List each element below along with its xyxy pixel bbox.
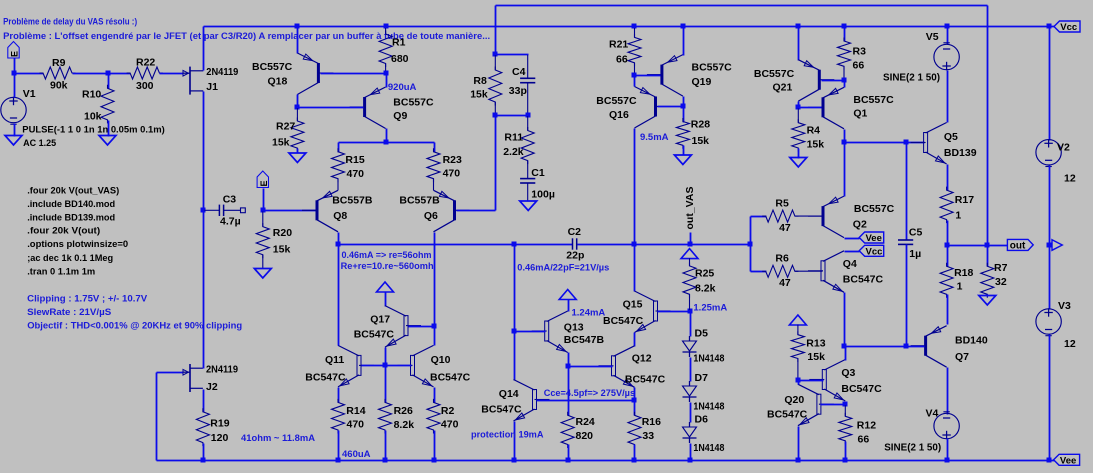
label J2 2N4119 [206,364,238,376]
wire flag to Q13 collector [568,300,570,312]
svg-text:D5: D5 [695,328,709,340]
annotation Re+re [341,261,434,272]
resistor R21 [628,34,641,66]
ground under R10 [99,136,116,146]
port flag unnamed [1052,240,1062,251]
net flag above R25 [681,249,698,259]
wire J1 source down [203,92,205,211]
svg-text:8.2k: 8.2k [695,283,716,295]
transistor Q8 BC557B [302,190,338,232]
transistor Q9 BC557C [350,87,386,129]
node Q1 base junction [796,105,801,110]
svg-text:R23: R23 [443,154,462,166]
svg-text:R26: R26 [394,405,413,417]
value R2 470 [441,419,459,431]
label Q13 BC547B [564,334,605,346]
wire Q17 emitter down [385,348,387,366]
label R22 [136,57,155,69]
lead R23 to Q6 emitter [433,179,435,191]
value R23 470 [443,168,461,180]
svg-text:41ohm ~ 11.8mA: 41ohm ~ 11.8mA [241,433,315,444]
value C3 4.7u [220,216,241,228]
value C4 33p [509,85,527,97]
label Q13 [564,322,584,334]
wire Q18 collector down [297,95,299,108]
bottom rail junction R12 [843,458,848,463]
svg-text:470: 470 [347,419,365,431]
label Q21 BC557C [754,68,795,80]
label V3 [1058,300,1071,312]
label Q9 BC557C [393,97,434,109]
label R11 [504,132,523,144]
value R6 47 [779,277,791,289]
wire Q12 emitter to R16 [634,388,636,416]
ground under R7 [979,296,996,306]
label Q17 [370,314,390,326]
wire C5 top lead [906,143,908,241]
wire Q8 collector down [338,233,340,245]
svg-text:Problème : L'offset engendré p: Problème : L'offset engendré par le JFET… [3,31,490,42]
value R11 2.2k [503,146,524,158]
node Q3 base junction [796,378,801,383]
wire Q13 base left [515,331,546,333]
wire Q10 base [386,365,412,367]
wire Q7 base line [845,346,925,348]
wire R12 to rail [845,442,847,461]
svg-text:300: 300 [136,80,154,92]
svg-text:470: 470 [441,419,459,431]
transistor Q20 BC547C [798,384,834,426]
svg-text:Objectif : THD<0.001% @ 20KHz: Objectif : THD<0.001% @ 20KHz et 90% cli… [27,321,242,332]
wire C5 bottom lead [906,245,908,347]
wire R2 to rail [434,431,436,461]
label Q7 [955,351,969,363]
annotation Objectif [27,321,242,332]
svg-text:0.46mA => re=56ohm: 0.46mA => re=56ohm [342,250,432,261]
label Q6 [424,210,438,222]
svg-text:33: 33 [642,430,654,442]
label Q2 [853,219,867,231]
svg-text:Q1: Q1 [853,108,867,120]
svg-text:Vee: Vee [1060,455,1076,466]
directive .options [27,239,128,250]
label Q14 BC547C [481,404,522,416]
wire Q11 collector up [338,245,340,346]
svg-text:BC547B: BC547B [564,334,605,346]
svg-text:Q11: Q11 [325,354,344,366]
label R7 [994,262,1008,274]
label Q15 BC547C [603,315,644,327]
wire Q18 base to mirror node [321,73,387,75]
wire J2 gate to rail [157,373,184,461]
wire flag to Q17 collector [385,293,387,307]
svg-text:R11: R11 [504,132,523,144]
ground under V1 [5,136,22,146]
svg-text:Q10: Q10 [431,354,451,366]
wire Q15 base right [658,311,691,313]
svg-text:Q14: Q14 [499,388,519,400]
svg-text:BC547C: BC547C [430,372,471,384]
resistor R14 [332,399,345,434]
svg-text:R19: R19 [210,418,229,430]
svg-text:Q21: Q21 [773,82,793,94]
svg-text:Q8: Q8 [333,210,347,222]
wire Q9 base left [298,107,364,109]
label R4 [807,125,821,137]
lead R20 to ground [262,255,264,269]
svg-text:PULSE(-1 1 0 1n 1n 0.05m 0.1m): PULSE(-1 1 0 1n 1n 0.05m 0.1m) [22,125,165,135]
wire Q20 collector up [798,381,800,385]
wire Q20 emitter to rail [798,427,800,461]
lead C4 top [527,55,529,78]
value R27 15k [272,137,290,149]
svg-text:15k: 15k [272,137,290,149]
label R15 [345,154,364,166]
svg-text:R5: R5 [775,198,789,210]
wire Q9 emitter up [386,74,388,88]
value V2 12 [1064,173,1076,185]
comment line 1 [3,17,137,28]
svg-text:R10: R10 [82,89,101,101]
wire degeneration rail [339,142,435,144]
wire rail to Q21 emitter [798,27,800,61]
svg-text:Problème de delay du VAS résol: Problème de delay du VAS résolu :) [3,17,137,28]
wire Q2 emitter up [844,143,846,197]
transistor Q6 BC557B [434,190,470,232]
wire Q12 base left [569,366,613,368]
svg-text:E: E [259,180,269,186]
label R13 [806,338,825,350]
svg-text:Q9: Q9 [393,110,407,122]
top rail junction R21 [632,24,637,29]
value R16 33 [642,430,654,442]
resistor R28 [676,118,689,149]
label R27 [276,121,295,133]
wire V5 to Q5 collector [947,71,949,123]
wire rail to V5 [947,27,949,45]
svg-text:R15: R15 [345,154,364,166]
label C1 [531,167,545,179]
wire R16 to rail [634,445,636,461]
svg-text:R28: R28 [691,119,710,131]
svg-text:SlewRate : 21V/µS: SlewRate : 21V/µS [27,307,111,318]
label R28 [691,119,710,131]
label J2 [206,381,218,393]
wire divider node to R10 [108,74,110,89]
svg-text:D6: D6 [695,414,709,426]
svg-text:C4: C4 [512,66,526,78]
label Q15 [623,299,643,311]
wire R27 to ground [297,149,299,154]
svg-text:Q18: Q18 [268,76,288,88]
svg-text:Q13: Q13 [564,322,584,334]
net flag E (input) [8,42,20,59]
wire E-flag to R20 node [263,189,265,211]
label Q11 BC547C [305,372,346,384]
wire to R23 [434,143,436,153]
label Q20 BC547C [767,409,808,421]
wire R18 to Q7 emitter [947,295,949,325]
svg-text:BC557B: BC557B [399,195,440,207]
svg-text:BC547C: BC547C [767,409,808,421]
svg-text:V2: V2 [1057,142,1070,154]
resistor R11 [521,127,534,164]
wire rail to R3 [844,27,846,42]
wire VAS drop to Q14 [514,245,516,381]
node Q19/Q16/R28 junction [681,104,686,109]
svg-text:C3: C3 [223,194,237,206]
svg-text:R4: R4 [807,125,821,137]
lead R13 to node [797,359,799,379]
top rail junction Q21 [796,24,801,29]
lead node to R4 [797,108,799,122]
svg-text:R8: R8 [473,75,487,87]
svg-text:1N4148: 1N4148 [693,442,724,454]
value C1 100u [531,189,555,201]
node input pair bases junction [383,363,388,368]
resistor R16 [628,412,641,448]
node Q3e/Q20b/R12 junction [843,402,848,407]
svg-text:BC547C: BC547C [843,274,884,286]
lead node to C3 [204,209,219,211]
lead E node to R20 [262,211,264,226]
directive .four out [27,226,100,237]
svg-text:820: 820 [576,430,594,442]
net flag Vee bottom right [1054,454,1080,466]
node VAS junction Q14col [512,242,517,247]
svg-text:R1: R1 [392,37,406,49]
bottom rail junction D6 [688,458,693,463]
wire Q17 base right [409,326,435,328]
transistor Q12 BC547C [599,346,635,388]
bottom rail junction R16 [632,458,637,463]
label R18 [954,267,973,279]
svg-text:C2: C2 [568,226,582,238]
label Q16 [609,109,629,121]
wire Q6 base right [457,210,496,212]
wire node to R28 [683,107,685,123]
voltage source V5 [934,43,959,70]
voltage source V1 [1,97,26,124]
svg-text:Vcc: Vcc [1060,22,1077,33]
svg-text:R9: R9 [52,57,66,69]
resistor R24 [561,412,574,448]
wire Q13 emitter down [568,353,570,367]
bottom rail junction V3 [1047,458,1052,463]
transistor Q11 BC547C [338,345,374,387]
value R19 120 [211,432,229,444]
lead R25 to out_VAS node [689,294,691,310]
annotation 1.25mA [693,303,727,314]
bottom rail junction Q14 [512,458,517,463]
label Q9 [393,110,407,122]
wire R26 to rail [385,431,387,461]
bottom rail junction Q20 [796,458,801,463]
label Q8 [333,210,347,222]
node R3/Q21/Q1 junction [842,78,847,83]
svg-text:680: 680 [391,53,409,65]
svg-text:90k: 90k [50,80,68,92]
svg-text:Q7: Q7 [955,351,969,363]
annotation 920uA [388,82,417,93]
wire rail to V2 [1049,27,1051,141]
svg-text:J2: J2 [206,381,218,393]
wire Q15 emitter to Q12 collector [634,333,636,347]
wire Q3 emitter down [845,402,847,405]
wire V3 to rail [1049,335,1051,461]
wire to R15 [338,143,340,153]
annotation 41ohm [241,433,315,444]
wire E node to Q8 base [264,210,316,212]
net flag E at R20 [257,171,269,188]
svg-text:V3: V3 [1058,300,1071,312]
label Q5 BD139 [944,147,977,159]
label Q18 [268,76,288,88]
svg-text:1N4148: 1N4148 [693,401,724,413]
resistor R6 [762,265,798,277]
wire Q3 collector up [845,347,847,361]
capacitor C1 [520,179,535,183]
value V4 SINE [884,442,941,454]
transistor Q18 BC557C [297,53,333,95]
net flag Vee at Q2 [859,232,884,244]
label Q1 BC557C [853,94,894,106]
transistor J2 2N4119 [183,364,203,392]
label Q5 [944,131,958,143]
svg-text:R16: R16 [642,416,661,428]
resistor R17 [940,187,953,224]
label R26 [394,405,413,417]
label Q18 BC557C [252,61,293,73]
wire R4 to ground [798,149,800,159]
value R17 1 [955,210,961,222]
resistor R9 [40,67,76,79]
label C3 [223,194,237,206]
value R21 66 [616,54,628,66]
label Q4 BC547C [843,274,884,286]
wire Q16 collector down [634,129,636,245]
lead flag to R13 [797,325,799,335]
node Q4 emitter junction [842,344,847,349]
value R28 15k [692,135,710,147]
wire feedback to Q6 base [495,116,497,211]
node C3 junction [201,208,206,213]
wire D7 to D6 [690,403,692,423]
wire branch vertical [750,217,752,272]
svg-text:out: out [1010,241,1026,252]
label V5 [926,31,939,43]
top rail junction Q19 [681,24,686,29]
svg-text:1: 1 [955,210,961,222]
wire Q19 emitter to rail [683,27,685,56]
wire divider node to R22 [109,73,131,75]
lead R11 to C1 [527,161,529,179]
resistor R7 [981,263,994,298]
wire Q11 emitter to R14 [338,388,340,403]
bottom rail junction R24 [566,458,571,463]
svg-text:Re+re=10.re~560omh: Re+re=10.re~560omh [341,261,434,272]
wire Q19 collector down [683,97,685,107]
value R3 66 [853,60,865,72]
svg-text:2.2k: 2.2k [503,146,524,158]
label R1 [392,37,406,49]
node R21 bottom junction [632,73,637,78]
svg-text:.four 20k V(out_VAS): .four 20k V(out_VAS) [27,186,119,197]
svg-text:47: 47 [779,222,791,234]
wire Q5 emitter to R17 [947,165,949,191]
voltage source V4 [934,412,959,439]
label R21 [609,39,628,51]
svg-text:0.46mA/22pF=21V/µs: 0.46mA/22pF=21V/µs [517,263,609,274]
label Q11 [325,354,344,366]
wire J2 source to R19 [203,390,205,413]
value D7 1N4148 [693,401,724,413]
input node junction [12,71,17,76]
ground under R27 [289,153,306,163]
resistor R8 [489,67,502,106]
svg-text:1.24mA: 1.24mA [572,308,606,319]
label R5 [775,198,789,210]
label J1 [206,81,218,93]
svg-text:BC557C: BC557C [393,97,434,109]
wire driver base line [845,142,925,144]
label R17 [955,194,974,206]
label Q20 [784,394,804,406]
directive .include BD140 [27,199,115,210]
svg-text:.include BD139.mod: .include BD139.mod [27,213,115,224]
resistor R26 [379,399,392,434]
resistor R15 [332,148,345,182]
annotation 9.5mA [640,132,669,143]
svg-text:1µ: 1µ [909,248,921,260]
label Q19 BC557C [692,62,733,74]
diode D6 1N4148 [683,422,697,443]
node Q13 base junction [512,329,517,334]
net flag Vcc at Q4 [859,245,884,257]
annotation 460uA [342,449,371,460]
wire R17 to out node [947,221,949,246]
node Q18 collector junction [295,105,300,110]
svg-text:.tran 0 1.1m 1m: .tran 0 1.1m 1m [27,267,95,278]
bottom rail junction R26 [383,458,388,463]
lead node to R12 [844,405,846,416]
resistor R20 [256,223,269,258]
value R12 66 [858,434,870,446]
wire Q9 collector down [386,129,388,143]
svg-text:out_VAS: out_VAS [684,187,696,230]
value R14 470 [347,419,365,431]
svg-text:9.5mA: 9.5mA [640,132,669,143]
svg-text:R25: R25 [695,268,714,280]
label Q3 [841,367,855,379]
lead node to R27 [296,108,298,121]
wire branch to R5 [751,216,767,218]
wire R14 to rail [338,431,340,461]
wire Q16 emitter up [634,76,636,87]
resistor R19 [196,408,209,446]
label R14 [346,405,365,417]
resistor R1 [379,31,392,68]
wire VAS line left [339,244,573,246]
svg-text:.options plotwinsize=0: .options plotwinsize=0 [27,239,128,250]
svg-text:Vcc: Vcc [866,246,883,257]
svg-text:.four 20k V(out): .four 20k V(out) [27,226,100,237]
svg-text:C1: C1 [531,167,545,179]
wire V4 to rail [947,439,949,461]
label R25 [695,268,714,280]
value D5 1N4148 [693,353,724,365]
svg-text:E: E [10,51,20,57]
